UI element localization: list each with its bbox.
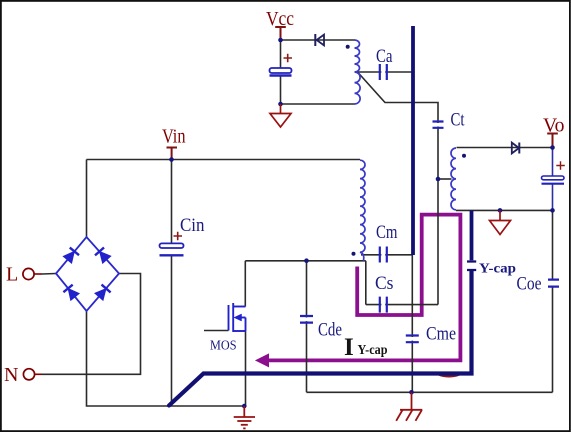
wire MOS source to ground: [245, 331, 247, 406]
wire MOS drain: [244, 261, 246, 307]
wire hop arc: [437, 373, 461, 377]
wire Vcc cap bottom to aux winding bottom: [281, 103, 355, 105]
Y-cap earth return path: [470, 210, 474, 260]
wire Cde vertical: [306, 261, 308, 393]
wire Cs row: [366, 304, 438, 306]
wire Cme vertical: [411, 255, 413, 392]
junction bottom-left node: [242, 404, 247, 409]
svg-text:MOS: MOS: [210, 339, 237, 354]
wire Cin vertical: [171, 160, 173, 244]
svg-text:Ct: Ct: [451, 110, 466, 131]
wire Vcc node to aux winding top: [281, 39, 355, 41]
capacitor C-out: [542, 176, 565, 180]
capacitor Y-cap: [467, 262, 476, 271]
antenna stub line: [411, 26, 415, 255]
svg-text:N: N: [4, 364, 18, 386]
junction sec ground: [498, 208, 503, 213]
junction Vcc node: [278, 38, 283, 43]
wire aux diagonal to Ct branch: [358, 73, 438, 180]
capacitor Cme: [406, 336, 419, 343]
svg-text:Cs: Cs: [375, 273, 394, 294]
node L terminal: [23, 268, 34, 279]
svg-text:Cin: Cin: [180, 215, 205, 236]
wire purple loop around Cs: [266, 215, 460, 361]
capacitor Cin: [160, 243, 184, 248]
diode D1 top-left: [63, 248, 79, 264]
svg-text:Cm: Cm: [376, 222, 398, 243]
capacitor Cm: [380, 247, 387, 263]
bridge rectifier frame: [56, 237, 119, 311]
wire Vin rail: [87, 159, 361, 161]
wire Cs left leg: [365, 261, 367, 305]
node primary phase dot: [352, 252, 356, 256]
wire bridge bottom to bottom-left rail: [87, 311, 245, 406]
junction Cde top: [304, 258, 309, 263]
capacitor Ct: [433, 122, 444, 128]
junction Vcc cap bottom: [278, 102, 283, 107]
wire drain rail Cm row: [245, 260, 365, 262]
arrowhead I Y-cap direction: [256, 354, 269, 366]
wire sec bottom row: [456, 209, 553, 211]
winding aux: [355, 40, 361, 104]
node aux phase dot: [346, 45, 350, 49]
diode D3 bottom-left: [63, 285, 79, 301]
transistor MOS: [229, 303, 246, 332]
wire aux tap to Ca to antenna line: [357, 71, 413, 73]
junction output bottom: [550, 208, 555, 213]
svg-text:Coe: Coe: [517, 274, 542, 295]
svg-text:Y-cap: Y-cap: [358, 342, 388, 357]
wire sec tap: [438, 178, 452, 180]
junction sec tap: [436, 177, 441, 182]
junction chassis node: [409, 390, 414, 395]
winding secondary: [451, 148, 456, 210]
diode D-aux: [317, 35, 324, 46]
svg-text:Ca: Ca: [376, 46, 393, 67]
winding primary: [360, 160, 365, 261]
diode D-out: [512, 143, 519, 154]
wire MOS gate stub: [204, 330, 229, 332]
wire bottom-right rail: [307, 391, 553, 393]
svg-text:L: L: [6, 264, 18, 286]
svg-text:Vin: Vin: [162, 126, 186, 148]
ground earth (bars): [234, 406, 255, 428]
ground chassis (hatched): [396, 392, 422, 421]
svg-text:Cme: Cme: [426, 324, 456, 345]
node sec phase dot: [462, 154, 466, 158]
capacitor Coe: [548, 280, 559, 287]
svg-text:Cde: Cde: [318, 320, 342, 341]
capacitor Cs: [380, 297, 387, 313]
wire rail to bridge top: [86, 160, 88, 238]
wire Vcc cap vertical: [280, 40, 282, 68]
diode D4 bottom-right: [94, 285, 110, 301]
diode D2 top-right: [95, 247, 111, 263]
wire sec top row to Vo: [457, 147, 553, 149]
wire Cm to antenna bottom: [361, 254, 413, 256]
capacitor C-Vcc: [270, 68, 292, 73]
capacitor Ca: [380, 64, 387, 80]
wire Ct lower segment to Cs wire: [437, 179, 439, 305]
junction Vin node: [169, 157, 174, 162]
capacitor Cde: [300, 316, 313, 323]
wire Vo vertical output rail: [552, 148, 554, 177]
junction Vo node: [550, 145, 555, 150]
wire bridge right vertex to N: [42, 274, 141, 375]
ground Vcc (open triangle): [280, 104, 282, 113]
svg-text:Y-cap: Y-cap: [479, 262, 516, 277]
node N terminal: [23, 369, 34, 380]
svg-text:I: I: [344, 334, 354, 361]
ground secondary (open triangle): [499, 210, 501, 220]
